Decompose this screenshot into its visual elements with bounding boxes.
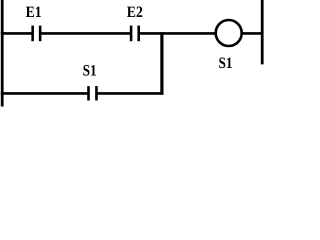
wire: E1 to E2 [41, 32, 130, 35]
wire: E2 to coil S1 (through junction) [140, 32, 216, 35]
coil S1 [216, 20, 242, 46]
svg-text:E1: E1 [26, 4, 42, 21]
contact E2 [131, 26, 139, 42]
wire: junction vertical branch [160, 32, 163, 94]
wire: coil S1 to right rail [242, 32, 262, 35]
svg-text:S1: S1 [83, 63, 97, 80]
left power rail [1, 0, 4, 107]
wire: left rail to contact E1 [1, 32, 32, 35]
wire: contact S1 to junction branch [97, 92, 163, 95]
contact S1 [89, 86, 97, 100]
svg-text:E2: E2 [127, 4, 143, 21]
svg-text:S1: S1 [219, 55, 233, 72]
wire: left rail to contact S1 (bottom rung) [1, 92, 88, 95]
right power rail [261, 0, 264, 64]
contact E1 [33, 26, 41, 42]
